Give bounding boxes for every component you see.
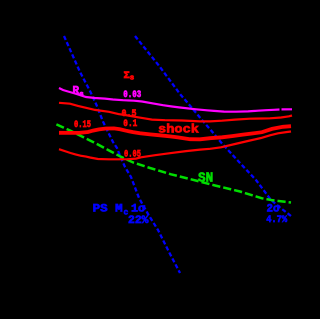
svg-text:2σ: 2σ [267, 204, 280, 216]
svg-text:s: s [130, 75, 135, 83]
svg-text:22%: 22% [128, 215, 149, 227]
svg-text:0.03: 0.03 [123, 90, 141, 101]
svg-text:1σ: 1σ [131, 204, 145, 216]
svg-text:0.1: 0.1 [123, 119, 137, 130]
svg-text:0.15: 0.15 [74, 120, 91, 131]
svg-text:4.7%: 4.7% [266, 215, 287, 226]
svg-text:SN: SN [198, 171, 213, 187]
svg-text:s: s [79, 91, 84, 99]
svg-text:PS M: PS M [93, 204, 123, 216]
svg-text:0.05: 0.05 [124, 149, 141, 160]
svg-text:shock: shock [158, 123, 199, 137]
